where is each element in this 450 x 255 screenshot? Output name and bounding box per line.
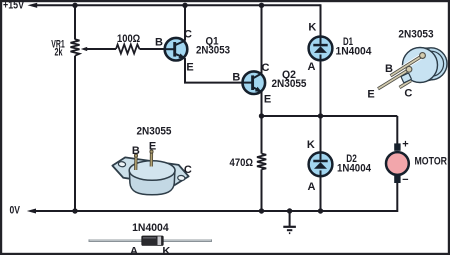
junction dot (VR1 bottom rail) <box>72 208 77 213</box>
wire: 100ohm to Q1 base <box>140 48 166 50</box>
pin label C (Q2) <box>262 62 270 74</box>
label D1 1N4004 <box>336 36 373 57</box>
wire: D1 branch from top rail <box>320 4 322 116</box>
label 2N3055 (package) <box>137 126 172 138</box>
wire: left vertical branch (VR1 branch) <box>74 5 76 211</box>
pin label E (Q2) <box>264 93 271 105</box>
wire: 0V bottom rail <box>34 210 397 212</box>
transistor package 2N3055 (TO-3 can) <box>111 150 190 195</box>
transistor package 2N3053 (TO-39 can) <box>378 48 447 89</box>
svg-text:B: B <box>132 145 140 157</box>
label 470ohm <box>230 157 254 169</box>
label D2 1N4004 <box>337 153 372 175</box>
junction dot (mid rail at D branch) <box>318 113 323 118</box>
pin label K (package 1N4004) <box>162 245 170 255</box>
wire: 470ohm branch <box>261 116 263 211</box>
svg-text:C: C <box>184 164 192 176</box>
pin label K (D1) <box>308 21 316 33</box>
junction dot (470ohm bottom rail) <box>259 208 264 213</box>
+15V arrowhead <box>28 3 38 8</box>
diode package 1N4004 <box>89 236 213 245</box>
wire: mid rail (emitter node) <box>262 115 398 117</box>
label MOTOR <box>415 155 448 167</box>
svg-text:470Ω: 470Ω <box>230 157 254 169</box>
svg-text:K: K <box>308 21 316 33</box>
svg-text:+15V: +15V <box>3 0 25 12</box>
svg-text:+: + <box>402 139 408 151</box>
pin label E (Q1) <box>186 62 193 74</box>
svg-text:1N4004: 1N4004 <box>132 222 169 234</box>
pin label K (D2) <box>307 139 315 151</box>
transistor Q2 <box>243 71 266 94</box>
wire: motor branch <box>396 116 398 212</box>
svg-text:B: B <box>232 72 240 84</box>
label 2N3053 (package) <box>398 29 433 41</box>
svg-text:MOTOR: MOTOR <box>415 155 448 167</box>
svg-text:E: E <box>149 141 156 153</box>
svg-text:A: A <box>308 181 316 193</box>
svg-text:2N3053: 2N3053 <box>398 29 433 41</box>
svg-text:E: E <box>264 93 271 105</box>
svg-text:B: B <box>155 37 163 49</box>
0V arrowhead <box>27 209 36 214</box>
pin label B (Q2) <box>232 72 240 84</box>
svg-text:−: − <box>402 174 408 186</box>
label + (motor) <box>402 139 408 151</box>
potentiometer VR1 <box>71 39 117 55</box>
svg-text:A: A <box>308 61 316 73</box>
pin label C (package 2N3053) <box>404 88 412 100</box>
svg-text:A: A <box>130 245 138 255</box>
diode D2 <box>309 152 333 176</box>
svg-text:K: K <box>307 139 315 151</box>
ground <box>283 211 296 233</box>
junction dot (Q1 C, top rail) <box>182 3 187 8</box>
svg-text:C: C <box>262 62 270 74</box>
pin label A (D1) <box>308 61 316 73</box>
pin label A (package 1N4004) <box>130 245 138 255</box>
label VR1 2k <box>51 39 65 59</box>
junction dot (Q2 C, top rail) <box>259 3 264 8</box>
pin label B (Q1) <box>155 37 163 49</box>
junction dot (VR1 top, top rail) <box>72 3 77 8</box>
wire: D2 branch <box>320 116 322 211</box>
junction dot (D2 bottom rail) <box>318 208 323 213</box>
svg-text:2N3055: 2N3055 <box>272 78 307 90</box>
label 1N4004 (package) <box>132 222 169 234</box>
transistor Q1 <box>165 38 188 61</box>
svg-text:1N4004: 1N4004 <box>337 163 372 175</box>
svg-text:2k: 2k <box>55 47 64 59</box>
wire: Q1 emitter down then right to Q2 base <box>184 58 243 83</box>
motor M1 <box>386 143 409 183</box>
wire: Q2 emitter down to mid rail <box>261 92 263 116</box>
label Q1 2N3053 <box>196 36 230 57</box>
label +15V <box>3 0 25 12</box>
pin label C (Q1) <box>184 29 192 41</box>
pin label C (package 2N3055) <box>184 164 192 176</box>
pin label B (package 2N3055) <box>132 145 140 157</box>
label - (motor) <box>402 174 408 186</box>
wire: +15V top rail <box>36 4 321 6</box>
resistor 470ohm <box>257 154 266 170</box>
svg-text:B: B <box>385 63 393 75</box>
svg-text:100Ω: 100Ω <box>117 33 140 45</box>
junction dot (mid rail at 470ohm) <box>259 113 264 118</box>
svg-text:1N4004: 1N4004 <box>336 45 373 57</box>
svg-text:0V: 0V <box>10 205 21 217</box>
pin label E (package 2N3053) <box>367 89 374 101</box>
svg-text:2N3055: 2N3055 <box>137 126 172 138</box>
junction dot (ground, bottom rail) <box>287 208 292 213</box>
pin label E (package 2N3055) <box>149 141 156 153</box>
label Q2 2N3055 <box>272 69 307 90</box>
svg-text:C: C <box>404 88 412 100</box>
wire: Q1 collector up to rail <box>184 5 186 40</box>
diode D1 <box>309 37 333 61</box>
label 100ohm <box>117 33 140 45</box>
label 0V <box>10 205 21 217</box>
pin label A (D2) <box>308 181 316 193</box>
resistor 100ohm <box>116 45 140 54</box>
svg-text:K: K <box>162 245 170 255</box>
svg-text:2N3053: 2N3053 <box>196 45 230 57</box>
wire: Q2 collector up to rail <box>261 5 263 73</box>
pin label B (package 2N3053) <box>385 63 393 75</box>
svg-text:E: E <box>367 89 374 101</box>
svg-text:E: E <box>186 62 193 74</box>
